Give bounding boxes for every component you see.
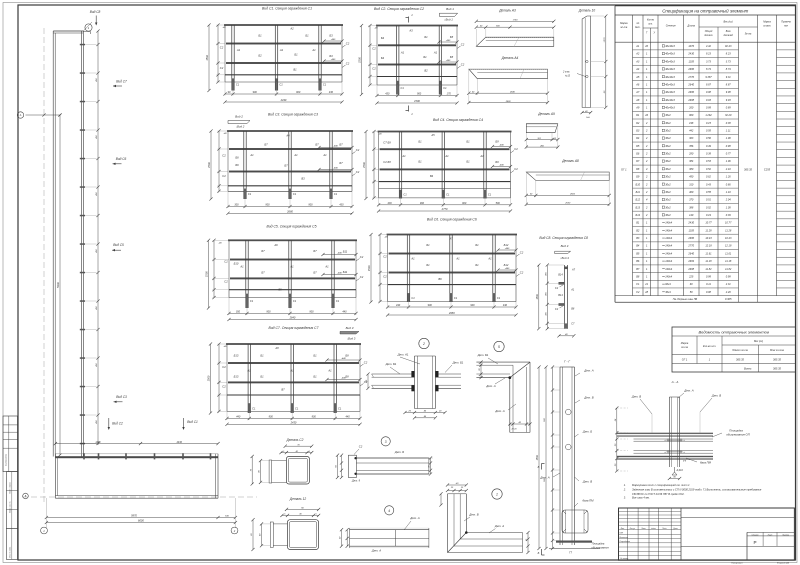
svg-text:Дет. А1: Дет. А1 — [397, 353, 409, 357]
svg-text:А6: А6 — [273, 243, 278, 247]
svg-text:2680: 2680 — [687, 90, 694, 94]
svg-text:2: 2 — [645, 129, 648, 133]
svg-text:Площадка: Площадка — [592, 542, 605, 546]
svg-text:9.03: 9.03 — [726, 98, 732, 102]
svg-text:Вид С7: Вид С7 — [116, 80, 127, 84]
svg-text:-440: -440 — [505, 247, 510, 250]
svg-text:С1: С1 — [293, 192, 297, 196]
svg-text:40: 40 — [296, 450, 299, 453]
svg-text:2: 2 — [645, 152, 648, 156]
svg-text:шт.: шт. — [648, 24, 653, 26]
svg-text:С1: С1 — [334, 192, 338, 196]
svg-text:Б11: Б11 — [636, 190, 641, 194]
svg-text:Лист: Лист — [640, 528, 646, 530]
svg-text:Б1: Б1 — [475, 263, 479, 267]
svg-text:2: 2 — [645, 205, 648, 209]
svg-text:В5: В5 — [636, 251, 640, 255]
svg-text:Дет. В: Дет. В — [583, 396, 593, 400]
svg-text:С7 Б8: С7 Б8 — [383, 141, 391, 145]
svg-text:2770: 2770 — [441, 207, 448, 211]
view marker C5 — [112, 243, 124, 251]
svg-text:Б2: Б2 — [636, 121, 640, 125]
svg-text:0.62: 0.62 — [706, 175, 712, 179]
svg-text:С2: С2 — [220, 46, 224, 50]
svg-text:0.50: 0.50 — [706, 136, 712, 140]
svg-text:С1: С1 — [411, 296, 415, 300]
svg-text:Б5: Б5 — [450, 55, 454, 59]
svg-text:Б1: Б1 — [305, 34, 309, 38]
svg-text:1760: 1760 — [513, 20, 519, 22]
svg-text:Вид С5. Секция ограждения С5: Вид С5. Секция ограждения С5 — [267, 225, 317, 229]
view C5 railing section — [205, 225, 364, 322]
plan view bottom dimension 5970 — [45, 498, 237, 528]
svg-text:900: 900 — [309, 311, 314, 314]
svg-text:С2: С2 — [514, 167, 518, 171]
svg-text:-440: -440 — [341, 377, 346, 380]
svg-text:40: 40 — [258, 470, 261, 473]
svg-text:С2: С2 — [359, 444, 363, 448]
svg-text:Дет. А: Дет. А — [485, 384, 495, 388]
svg-text:-440: -440 — [446, 59, 451, 62]
svg-text:300: 300 — [234, 204, 239, 207]
svg-text:-440: -440 — [505, 267, 510, 270]
view marker C2 — [108, 418, 123, 430]
svg-text:1500: 1500 — [207, 162, 211, 168]
view C8 railing section narrow — [536, 236, 588, 338]
svg-text:1: 1 — [411, 13, 413, 17]
svg-text:440: 440 — [236, 416, 241, 419]
svg-text:Б1: Б1 — [466, 160, 470, 164]
svg-text:Дет. А: Дет. А — [494, 524, 504, 528]
svg-text:Б3: Б3 — [636, 129, 640, 133]
svg-text:140: 140 — [689, 213, 694, 217]
svg-text:1500: 1500 — [205, 271, 209, 277]
svg-text:0.86: 0.86 — [726, 182, 732, 186]
svg-text:-40: -40 — [455, 482, 459, 485]
svg-text:Дет. А: Дет. А — [409, 516, 419, 520]
svg-text:Вид 4: Вид 4 — [561, 244, 569, 248]
svg-text:2430: 2430 — [290, 421, 297, 425]
svg-text:11.82: 11.82 — [705, 267, 712, 271]
svg-text:А1: А1 — [236, 48, 241, 52]
view C4 railing section — [362, 118, 518, 213]
svg-text:Б7: Б7 — [264, 143, 268, 147]
svg-text:450: 450 — [95, 419, 98, 423]
svg-text:1198: 1198 — [95, 441, 101, 444]
svg-text:430: 430 — [329, 91, 334, 94]
svg-text:В14: В14 — [558, 274, 563, 277]
svg-text:140х4: 140х4 — [665, 267, 673, 271]
plan view left axis circle dim — [17, 112, 61, 118]
section A-A node — [614, 380, 751, 480]
svg-text:Б1: Б1 — [426, 263, 430, 267]
svg-text:Б: Б — [25, 495, 27, 498]
svg-text:28: 28 — [644, 290, 648, 294]
detail A4 plate — [467, 56, 549, 104]
svg-text:-40: -40 — [374, 27, 378, 30]
svg-text:+: + — [664, 439, 666, 442]
svg-text:30х2: 30х2 — [665, 205, 671, 209]
svg-text:442: 442 — [689, 129, 694, 133]
svg-text:1: 1 — [646, 52, 648, 56]
svg-text:А2: А2 — [289, 27, 294, 31]
detail 10 plate — [562, 9, 607, 120]
svg-text:8.87: 8.87 — [706, 82, 712, 86]
svg-text:900: 900 — [420, 202, 425, 205]
svg-text:Б7: Б7 — [261, 249, 265, 253]
svg-text:60: 60 — [690, 282, 693, 286]
svg-text:900: 900 — [266, 311, 271, 314]
svg-text:Б13: Б13 — [234, 374, 239, 378]
svg-text:2.: 2. — [623, 488, 626, 492]
svg-text:С1: С1 — [323, 83, 327, 87]
svg-text:С1: С1 — [401, 86, 405, 90]
svg-text:40х40х3: 40х40х3 — [665, 44, 675, 48]
svg-text:-440: -440 — [333, 167, 338, 170]
svg-text:1: 1 — [646, 67, 648, 71]
svg-text:12.18: 12.18 — [725, 244, 732, 248]
svg-text:11.61: 11.61 — [725, 251, 732, 255]
svg-text:8.23: 8.23 — [706, 52, 712, 56]
svg-text:В2: В2 — [636, 228, 640, 232]
svg-text:С2: С2 — [383, 275, 387, 279]
svg-text:Деталь С2: Деталь С2 — [286, 438, 304, 442]
svg-text:Б8: Б8 — [345, 353, 349, 357]
svg-text:1.262: 1.262 — [705, 113, 712, 117]
svg-text:0.52: 0.52 — [706, 167, 712, 171]
svg-text:60х4: 60х4 — [665, 282, 671, 286]
svg-text:6000: 6000 — [138, 519, 144, 523]
svg-text:А1: А1 — [289, 369, 294, 373]
svg-text:В8: В8 — [636, 274, 640, 278]
svg-text:ГТ: ГТ — [569, 552, 572, 555]
svg-text:Б1: Б1 — [426, 243, 430, 247]
svg-text:В14: В14 — [558, 294, 563, 297]
svg-text:30х2: 30х2 — [665, 121, 671, 125]
svg-text:С2: С2 — [555, 308, 559, 311]
svg-text:Б13: Б13 — [636, 205, 641, 209]
svg-text:10.77: 10.77 — [725, 221, 732, 225]
svg-text:2500: 2500 — [569, 194, 576, 196]
svg-text:1: 1 — [646, 98, 648, 102]
svg-text:Вид С2: Вид С2 — [112, 422, 123, 426]
svg-text:С2: С2 — [360, 275, 364, 279]
svg-text:Дет. Б1: Дет. Б1 — [385, 362, 397, 366]
detail A8 plate — [525, 159, 611, 206]
svg-text:Б4: Б4 — [381, 56, 385, 60]
svg-text:А4: А4 — [285, 134, 290, 138]
svg-text:2.20: 2.20 — [725, 290, 732, 294]
svg-text:2: 2 — [645, 121, 648, 125]
svg-text:1.: 1. — [624, 483, 626, 487]
svg-text:40: 40 — [525, 538, 528, 541]
svg-text:30: 30 — [615, 463, 617, 466]
svg-text:900: 900 — [544, 417, 546, 421]
svg-text:9.08: 9.08 — [706, 90, 712, 94]
svg-text:Б1: Б1 — [294, 53, 298, 57]
svg-text:1500: 1500 — [207, 375, 211, 381]
svg-text:2 отв.: 2 отв. — [562, 71, 570, 73]
svg-text:280: 280 — [688, 152, 694, 156]
svg-text:300: 300 — [236, 311, 241, 314]
svg-text:Вид С3. Секция ограждения С3: Вид С3. Секция ограждения С3 — [268, 113, 318, 117]
svg-text:8.74: 8.74 — [726, 67, 732, 71]
svg-text:А1: А1 — [327, 369, 332, 373]
svg-text:Т: Т — [646, 33, 648, 35]
svg-text:500: 500 — [496, 202, 501, 205]
svg-text:С2: С2 — [461, 42, 465, 46]
svg-text:Общий: Общий — [705, 30, 713, 33]
svg-text:30х2: 30х2 — [665, 175, 671, 179]
svg-text:2770: 2770 — [687, 75, 694, 79]
svg-text:0.15: 0.15 — [706, 121, 712, 125]
svg-text:30х2: 30х2 — [665, 152, 671, 156]
svg-text:-440: -440 — [337, 272, 342, 275]
svg-text:Дет. В: Дет. В — [582, 480, 592, 484]
svg-text:Ведомость отправочных элементо: Ведомость отправочных элементов — [699, 330, 769, 335]
svg-text:С2: С2 — [222, 385, 226, 389]
svg-text:380: 380 — [689, 167, 694, 171]
svg-text:Деталь 12: Деталь 12 — [289, 497, 306, 501]
svg-text:Примеча: Примеча — [781, 22, 791, 24]
svg-text:Марка: Марка — [763, 21, 771, 24]
svg-text:1500: 1500 — [367, 265, 371, 271]
svg-text:40х40х3: 40х40х3 — [665, 67, 675, 71]
svg-text:1: 1 — [646, 274, 648, 278]
svg-text:Зв-та: Зв-та — [745, 34, 752, 36]
svg-text:430: 430 — [339, 204, 344, 207]
svg-text:2: 2 — [422, 342, 425, 346]
svg-text:11.18: 11.18 — [705, 259, 712, 263]
svg-text:900: 900 — [265, 204, 270, 207]
svg-text:С2: С2 — [383, 255, 387, 259]
svg-text:900: 900 — [253, 91, 258, 94]
svg-text:-440: -440 — [446, 39, 451, 42]
svg-text:Б1: Б1 — [418, 160, 422, 164]
svg-text:А1: А1 — [324, 265, 329, 269]
svg-text:400: 400 — [544, 271, 547, 275]
svg-text:Кол-во: Кол-во — [647, 20, 655, 22]
svg-text:1: 1 — [43, 529, 45, 533]
svg-text:Вид С1. Секция ограждения С1: Вид С1. Секция ограждения С1 — [262, 7, 312, 11]
svg-text:0.38: 0.38 — [726, 121, 732, 125]
svg-text:1500: 1500 — [362, 162, 366, 168]
svg-text:50: 50 — [690, 290, 693, 294]
node detail 4 bar — [340, 506, 429, 553]
svg-text:64: 64 — [614, 418, 617, 421]
svg-text:2640: 2640 — [289, 316, 296, 320]
svg-text:С1: С1 — [279, 83, 283, 87]
svg-text:А7: А7 — [635, 90, 640, 94]
svg-text:900: 900 — [428, 304, 433, 307]
svg-text:11.28: 11.28 — [725, 228, 732, 232]
svg-text:170: 170 — [447, 93, 452, 96]
svg-text:Б12: Б12 — [636, 198, 641, 202]
svg-text:30х2: 30х2 — [665, 113, 671, 117]
svg-text:Б: Б — [538, 465, 540, 469]
svg-text:140х4: 140х4 — [665, 228, 673, 232]
svg-text:ОГ 1: ОГ 1 — [621, 168, 627, 172]
svg-text:440: 440 — [342, 311, 347, 314]
svg-text:В7: В7 — [281, 388, 285, 392]
svg-text:2.04: 2.04 — [725, 198, 732, 202]
view C6 railing section — [367, 218, 524, 317]
svg-text:эл-та: эл-та — [620, 26, 627, 29]
svg-text:20: 20 — [644, 44, 648, 48]
svg-text:А1: А1 — [444, 154, 449, 158]
svg-text:Подп. и дата: Подп. и дата — [9, 482, 12, 493]
svg-text:20: 20 — [460, 487, 464, 489]
svg-text:40х40х3: 40х40х3 — [665, 105, 675, 109]
svg-text:В1: В1 — [293, 68, 297, 72]
view C3 railing section — [207, 113, 360, 215]
svg-text:26: 26 — [644, 113, 648, 117]
plan view vertical axis — [43, 28, 45, 505]
svg-text:С2: С2 — [224, 280, 228, 284]
svg-text:40х40х3: 40х40х3 — [665, 52, 675, 56]
node detail 3 bar end — [336, 437, 433, 483]
svg-text:30х2: 30х2 — [665, 136, 671, 140]
svg-text:900: 900 — [269, 416, 274, 419]
plan view column dimension chain — [85, 29, 100, 445]
left margin stamp boxes — [3, 416, 18, 559]
svg-text:Листов: Листов — [781, 534, 789, 536]
svg-text:2550: 2550 — [564, 203, 571, 205]
svg-text:В5: В5 — [278, 288, 282, 292]
svg-text:Деталь А8: Деталь А8 — [561, 159, 579, 163]
svg-text:Согласовано: Согласовано — [6, 453, 8, 466]
svg-text:Копировал: Копировал — [732, 562, 744, 564]
view marker C8 — [90, 10, 101, 25]
svg-text:260: 260 — [539, 145, 544, 147]
svg-text:40: 40 — [299, 513, 302, 516]
svg-text:А1: А1 — [249, 153, 254, 157]
svg-text:Сечение: Сечение — [666, 25, 677, 28]
svg-text:Подп.: Подп. — [662, 527, 667, 530]
svg-text:№13: №13 — [565, 74, 571, 77]
svg-text:Б7: Б7 — [339, 161, 343, 165]
svg-text:Б1: Б1 — [418, 140, 422, 144]
svg-text:Б3: Б3 — [329, 34, 333, 38]
svg-text:Б: Б — [538, 551, 540, 555]
svg-text:9.08: 9.08 — [726, 90, 732, 94]
svg-text:92.43: 92.43 — [725, 44, 732, 48]
svg-text:дет.: дет. — [635, 26, 641, 29]
svg-text:440: 440 — [396, 304, 401, 307]
svg-text:30х2: 30х2 — [665, 198, 671, 202]
svg-text:Заделные швы В соответствии с: Заделные швы В соответствии с СП N 0000.… — [632, 488, 762, 492]
svg-text:Б1: Б1 — [424, 35, 428, 39]
svg-text:365.35: 365.35 — [744, 168, 752, 172]
detail A9 plate — [525, 112, 560, 149]
plan view bottom bar — [55, 453, 218, 498]
svg-text:1.11: 1.11 — [726, 129, 731, 133]
svg-text:Б8: Б8 — [345, 374, 349, 378]
svg-text:0.89: 0.89 — [726, 105, 732, 109]
svg-text:Кол.уч.: Кол.уч. — [630, 528, 636, 530]
svg-text:↓Вид 3: ↓Вид 3 — [347, 336, 356, 340]
svg-text:30х2: 30х2 — [665, 213, 671, 217]
svg-text:Б7: Б7 — [315, 143, 319, 147]
view marker C7 — [113, 80, 127, 88]
svg-text:деталей: деталей — [723, 34, 733, 37]
svg-text:900: 900 — [308, 204, 313, 207]
svg-text:база ПМ: база ПМ — [582, 499, 594, 503]
svg-text:Вид С6. Секция ограждения С6: Вид С6. Секция ограждения С6 — [427, 218, 477, 222]
svg-text:Вид С8. Секция ограждения С8: Вид С8. Секция ограждения С8 — [539, 236, 588, 240]
svg-text:С1: С1 — [454, 296, 458, 300]
svg-text:0.51: 0.51 — [706, 198, 712, 202]
svg-text:0.99: 0.99 — [706, 274, 712, 278]
notes text — [623, 483, 762, 500]
svg-text:Б9: Б9 — [495, 140, 499, 144]
svg-text:-40: -40 — [223, 132, 227, 135]
svg-text:Одного эл-та: Одного эл-та — [732, 349, 748, 352]
svg-text:9.03: 9.03 — [706, 98, 712, 102]
svg-text:Б1: Б1 — [260, 374, 264, 378]
svg-text:А1: А1 — [400, 51, 405, 55]
svg-text:-40: -40 — [378, 133, 382, 136]
svg-text:Всех эл-тов: Всех эл-тов — [770, 349, 784, 352]
svg-text:0.08: 0.08 — [706, 290, 712, 294]
svg-text:2770: 2770 — [687, 244, 694, 248]
svg-text:1370: 1370 — [604, 37, 606, 43]
svg-text:Вид 1: Вид 1 — [446, 7, 454, 11]
svg-text:5: 5 — [498, 345, 500, 349]
svg-text:2.10: 2.10 — [725, 167, 732, 171]
svg-text:-440: -440 — [331, 38, 336, 41]
svg-text:↓Вид 4: ↓Вид 4 — [560, 256, 569, 260]
svg-text:+: + — [664, 451, 666, 454]
svg-text:Спецификация на отправочный эл: Спецификация на отправочный элемент — [662, 8, 748, 13]
svg-text:0.77: 0.77 — [726, 152, 732, 156]
svg-text:0.99: 0.99 — [726, 274, 732, 278]
svg-text:1: 1 — [646, 105, 648, 109]
svg-text:Б6: Б6 — [235, 156, 239, 160]
svg-text:А1: А1 — [322, 153, 327, 157]
svg-text:30х2: 30х2 — [665, 129, 671, 133]
svg-text:Взам. инв. №: Взам. инв. № — [9, 501, 12, 512]
specification table — [615, 6, 796, 302]
svg-text:В4: В4 — [636, 244, 640, 248]
svg-text:1: 1 — [646, 82, 648, 86]
svg-text:1: 1 — [646, 267, 648, 271]
svg-text:1105: 1105 — [688, 59, 694, 63]
svg-text:В7: В7 — [636, 267, 640, 271]
svg-text:2680: 2680 — [448, 311, 455, 315]
svg-text:5970: 5970 — [131, 513, 137, 517]
svg-text:0.39: 0.39 — [726, 213, 732, 217]
svg-text:А9: А9 — [635, 105, 640, 109]
svg-text:45: 45 — [424, 415, 427, 418]
svg-text:Б1: Б1 — [313, 353, 317, 357]
svg-text:А8: А8 — [635, 98, 640, 102]
svg-text:Дет. Б1: Дет. Б1 — [477, 353, 489, 357]
plan view total dimension 6000 — [45, 519, 237, 524]
svg-text:А8: А8 — [274, 346, 279, 350]
svg-text:С2: С2 — [222, 174, 226, 178]
svg-text:В1: В1 — [636, 221, 640, 225]
svg-text:С2: С2 — [360, 255, 364, 259]
svg-text:С1: С1 — [336, 299, 340, 303]
svg-text:1500: 1500 — [536, 454, 539, 460]
svg-text:388: 388 — [689, 205, 694, 209]
svg-text:1: 1 — [646, 259, 648, 263]
svg-text:Б6: Б6 — [235, 163, 239, 167]
svg-text:40х40х3: 40х40х3 — [665, 98, 675, 102]
view 2 marker — [228, 115, 250, 129]
svg-text:1.10: 1.10 — [726, 190, 732, 194]
